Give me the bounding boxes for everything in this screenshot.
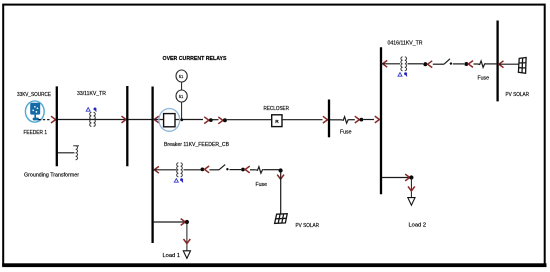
wire S6 to disconnect switch 2 [209,169,219,171]
svg-text:OVER CURRENT RELAYS: OVER CURRENT RELAYS [163,56,227,62]
branch 2: arrow at B3 [154,166,159,173]
wire B3 to transformer T2 [154,169,177,171]
relay 51 lower [176,90,187,102]
svg-text:Load 1: Load 1 [163,253,181,259]
svg-text:Load 2: Load 2 [409,222,427,228]
wire down to PV panel [280,172,282,214]
svg-text:Fuse: Fuse [340,130,352,136]
wire F3 to B6 [486,63,496,65]
fuse F1 [342,117,350,124]
busbar B5 [380,47,382,194]
svg-text:51: 51 [179,74,184,79]
wire down to load2 [410,178,412,198]
wire S3 to B5 [363,119,374,121]
arrow at S6 [205,166,210,173]
junction load2 [409,175,413,179]
svg-text:FEEDER 1: FEEDER 1 [24,130,48,136]
arrow into bus5 [375,116,380,123]
svg-text:Grounding Transformer: Grounding Transformer [24,172,79,178]
wire F2 to PV junction [264,169,279,171]
load L2 triangle [408,198,415,206]
T2 winding symbols delta-wye [174,178,183,182]
relay 51 upper [176,70,187,82]
load 2 branch wire from B5 [382,177,409,179]
busbar B3 [151,87,153,244]
load 1 branch wire from B3 [154,221,184,223]
busbar B2 [126,86,128,166]
T3 winding symbols delta-wye [398,72,407,76]
recloser R1 [272,115,282,127]
arrow down load1 [184,239,191,244]
wire down to load1 [186,222,188,251]
disconnect switch dot [450,62,452,64]
wire relay to main line [181,102,183,120]
fuse F2 [256,167,264,174]
svg-text:RECLOSER: RECLOSER [264,106,290,112]
wire B4 to fuse F1 [330,119,342,121]
arrow at S5 [468,61,473,68]
arrow at S7 [245,166,250,173]
switch S4 closed dot [423,62,427,66]
disconnect switch 2 dot [226,168,228,170]
arrow before switch S3 [355,116,360,123]
busbar B6 [496,21,498,102]
arrow at B3 main line [154,116,159,123]
arrow into bus4 [323,116,328,123]
wire S5 to fuse F3 [474,63,479,65]
svg-text:51: 51 [179,94,184,99]
wire S2 to recloser [227,119,272,121]
wire B1 to grounding transformer [58,152,75,154]
disconnect switch 2 blade open [219,165,225,170]
T1 winding symbols delta-wye [86,108,96,112]
wire recloser to B4 [282,119,323,121]
svg-text:33KV_SOURCE: 33KV_SOURCE [17,92,51,98]
arrow down load2 [408,186,415,191]
wire S4 to disconnect switch [433,63,444,65]
switch S1 closed dot [209,118,213,122]
arrow down PV drop [277,175,284,180]
load L1 triangle [183,251,190,259]
svg-text:Fuse: Fuse [478,76,490,82]
wire S7 to fuse F2 [250,169,256,171]
svg-text:Fuse: Fuse [256,182,268,188]
transformer T3 0416/11KV_TR [401,57,407,71]
arrow before load1 junction [181,219,186,226]
svg-text:0416/11KV_TR: 0416/11KV_TR [388,40,423,46]
wire T2 to S6 [184,169,201,171]
junction relay tap [180,118,183,121]
busbar B1 [56,86,58,166]
arrow at B5 upper branch [383,60,388,67]
grounding transformer coil [73,146,79,160]
wire to S5 [453,63,464,65]
transformer T2 [177,163,183,177]
wire B6 to PV panel [499,63,519,65]
wire B2 to B3 [128,119,151,121]
wire F1 to S3 [350,119,355,121]
breaker CB 11KV_FEEDER_CB [159,109,180,132]
wire B1 to B2 main line [58,119,126,121]
svg-text:PV SOLAR: PV SOLAR [296,223,320,229]
transformer T1 33/11KV_TR [90,112,96,126]
arrow at B6 from PV [499,61,504,68]
source U1 33KV_SOURCE [25,101,44,122]
PV array PV2 panel [275,214,288,224]
fuse F3 [478,61,486,68]
junction PV drop [279,168,283,172]
svg-text:Breaker 11KV_FEEDER_CB: Breaker 11KV_FEEDER_CB [164,142,229,148]
wire B5 to transformer T3 [382,63,400,65]
arrow into bus1 [51,116,56,123]
switch S5 closed dot [464,62,468,66]
junction load1 [185,220,189,224]
wire S1 to S2 [213,119,219,121]
switch S2 closed dot [223,118,227,122]
svg-text:33/11KV_TR: 33/11KV_TR [77,91,106,97]
svg-text:PV SOLAR: PV SOLAR [506,92,530,98]
arrow into bus2 [122,116,127,123]
wire to S7 [230,169,242,171]
wire relay to relay [181,82,183,90]
wire B3 to breaker [154,119,203,121]
arrow before load2 junction [405,174,410,181]
arrow before switch S1 [204,117,209,124]
arrow at S4 [428,61,433,68]
busbar B4 [328,100,330,138]
disconnect switch blade open [444,59,450,64]
switch S6 closed dot [201,168,205,172]
switch S7 closed dot [241,168,245,172]
wire T3 to S4 [408,63,424,65]
wire dashed source to bus1 [39,119,52,121]
svg-text:R: R [275,119,279,125]
arrow before switch S2 [218,117,223,124]
PV array PV1 panel [518,58,526,74]
switch S3 closed dot [360,118,364,122]
